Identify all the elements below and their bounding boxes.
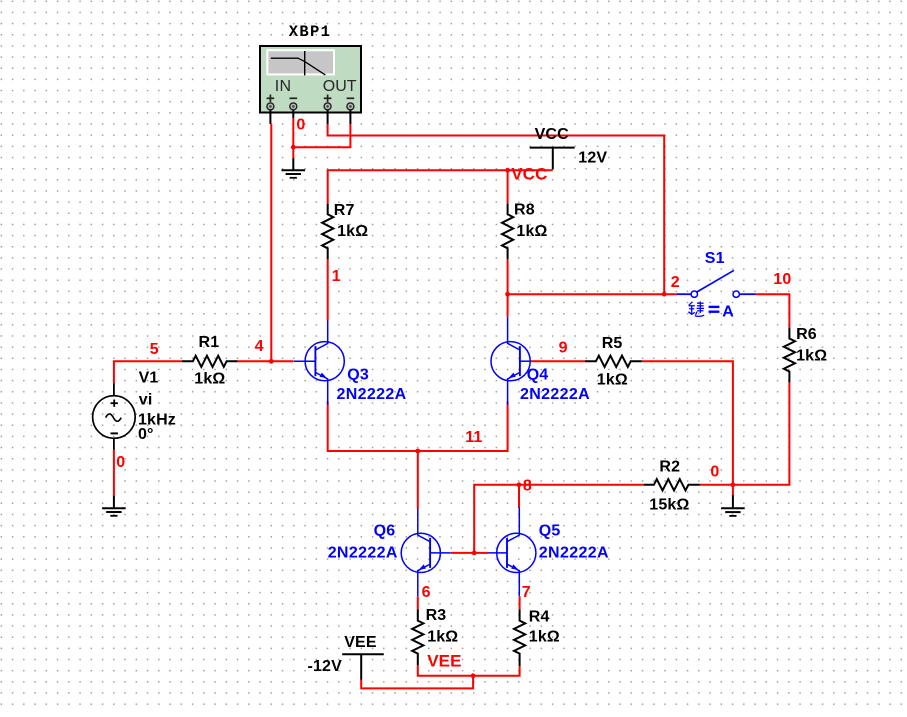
svg-text:12V: 12V bbox=[578, 149, 607, 166]
svg-text:-12V: -12V bbox=[308, 658, 343, 675]
svg-text:0: 0 bbox=[710, 463, 719, 480]
svg-text:1kΩ: 1kΩ bbox=[529, 628, 560, 645]
svg-text:2: 2 bbox=[671, 274, 680, 291]
svg-text:1kΩ: 1kΩ bbox=[516, 223, 547, 240]
svg-text:R2: R2 bbox=[659, 459, 680, 476]
svg-text:VEE: VEE bbox=[344, 634, 377, 651]
svg-text:VEE: VEE bbox=[427, 652, 461, 671]
svg-text:8: 8 bbox=[523, 477, 532, 494]
svg-text:Q5: Q5 bbox=[539, 523, 561, 540]
svg-text:R4: R4 bbox=[529, 609, 550, 626]
svg-text:2N2222A: 2N2222A bbox=[337, 386, 407, 403]
svg-text:Q4: Q4 bbox=[527, 366, 549, 383]
svg-text:Q6: Q6 bbox=[374, 523, 396, 540]
svg-text:VCC: VCC bbox=[511, 164, 547, 183]
svg-text:0°: 0° bbox=[138, 426, 154, 443]
svg-text:vi: vi bbox=[139, 392, 153, 409]
svg-text:R7: R7 bbox=[334, 202, 355, 219]
svg-text:1kΩ: 1kΩ bbox=[194, 371, 225, 388]
svg-text:R5: R5 bbox=[602, 335, 623, 352]
svg-text:6: 6 bbox=[422, 584, 431, 601]
svg-text:2N2222A: 2N2222A bbox=[328, 545, 398, 562]
svg-text:R8: R8 bbox=[514, 202, 535, 219]
svg-text:1: 1 bbox=[332, 268, 341, 285]
svg-text:1kΩ: 1kΩ bbox=[427, 628, 458, 645]
svg-text:15kΩ: 15kΩ bbox=[649, 497, 689, 514]
svg-text:1kΩ: 1kΩ bbox=[597, 372, 628, 389]
svg-text:0: 0 bbox=[296, 117, 305, 134]
svg-text:OUT: OUT bbox=[323, 78, 357, 95]
svg-text:4: 4 bbox=[255, 338, 264, 355]
svg-text:10: 10 bbox=[773, 271, 791, 288]
svg-text:Q3: Q3 bbox=[347, 366, 369, 383]
svg-text:S1: S1 bbox=[705, 250, 725, 267]
svg-text:R1: R1 bbox=[199, 334, 220, 351]
svg-text:1kΩ: 1kΩ bbox=[796, 347, 827, 364]
svg-text:IN: IN bbox=[275, 78, 291, 95]
svg-text:9: 9 bbox=[559, 340, 568, 357]
svg-text:R6: R6 bbox=[796, 326, 817, 343]
svg-text:VCC: VCC bbox=[535, 126, 570, 143]
svg-text:2N2222A: 2N2222A bbox=[520, 386, 590, 403]
svg-text:V1: V1 bbox=[139, 370, 159, 387]
svg-text:R3: R3 bbox=[426, 607, 447, 624]
svg-text:A: A bbox=[722, 303, 734, 320]
svg-text:XBP1: XBP1 bbox=[289, 23, 331, 41]
svg-text:11: 11 bbox=[465, 429, 482, 446]
svg-text:1kΩ: 1kΩ bbox=[337, 223, 368, 240]
svg-text:2N2222A: 2N2222A bbox=[539, 545, 609, 562]
svg-text:5: 5 bbox=[150, 341, 159, 358]
svg-text:0: 0 bbox=[116, 454, 125, 471]
svg-text:7: 7 bbox=[522, 584, 531, 601]
